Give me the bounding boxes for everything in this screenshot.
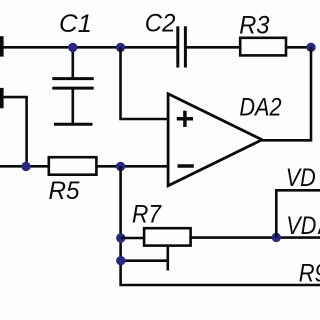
svg-text:VD: VD bbox=[286, 164, 316, 192]
wire (R3 to output node) bbox=[287, 46, 311, 49]
wire (R7 wiper tap) bbox=[167, 246, 170, 271]
node (bus / R7 left junction) bbox=[116, 233, 125, 242]
wire (vertical bus down and bottom rail) bbox=[121, 166, 320, 285]
capacitor C1 bbox=[52, 47, 93, 124]
node (bus / wiper junction) bbox=[116, 256, 125, 265]
wire (second stub down to inverting net) bbox=[0, 97, 27, 166]
node (C1 / top net junction) bbox=[68, 43, 77, 52]
node (output / feedback junction) bbox=[306, 43, 315, 52]
svg-text:R5: R5 bbox=[49, 177, 80, 205]
terminal stub (second input, cropped at left edge) bbox=[0, 88, 4, 108]
capacitor C2 bbox=[178, 26, 186, 67]
wire (C1 lower stub bar) bbox=[54, 123, 93, 126]
wire (bus to R7) bbox=[121, 237, 145, 240]
wire (C2 to R3) bbox=[185, 46, 239, 49]
label VD2 digit fragment (cropped at right edge) bbox=[318, 229, 320, 234]
wire (feedback: down and left to op-amp output) bbox=[262, 47, 311, 140]
terminal stub (top input, cropped at left edge) bbox=[0, 36, 4, 56]
resistor R7 bbox=[144, 228, 191, 245]
node (non-inverting branch junction) bbox=[116, 43, 125, 52]
svg-text:C2: C2 bbox=[145, 9, 176, 37]
wire (R7 right to VD net) bbox=[191, 236, 320, 239]
svg-text:C1: C1 bbox=[59, 10, 92, 38]
wire (wiper to bus) bbox=[121, 259, 168, 262]
svg-text:R9: R9 bbox=[299, 259, 320, 287]
svg-text:VD: VD bbox=[286, 212, 316, 240]
node (inverting net / bus junction) bbox=[116, 162, 125, 171]
wire (inverting input net through R5) bbox=[0, 165, 168, 168]
op-amp DA2 bbox=[168, 94, 262, 186]
node (VD branch junction) bbox=[272, 233, 281, 242]
resistor R5 bbox=[49, 157, 97, 175]
wire (non-inverting input from top net) bbox=[121, 47, 169, 119]
svg-text:R7: R7 bbox=[132, 201, 162, 229]
node (left junction on inverting net) bbox=[21, 162, 30, 171]
svg-text:R3: R3 bbox=[239, 12, 269, 40]
wire (top horizontal net to C2) bbox=[0, 46, 177, 49]
resistor R3 bbox=[240, 38, 286, 56]
wire (up and right to VD1) bbox=[276, 190, 320, 237]
svg-text:DA2: DA2 bbox=[239, 93, 281, 121]
